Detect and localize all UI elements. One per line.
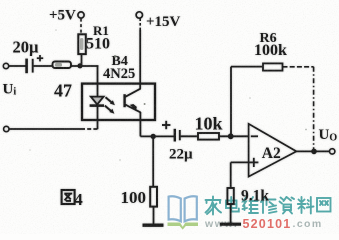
wire plus input horizontal [231, 161, 249, 163]
resistor R1 [78, 34, 86, 54]
node junction output [311, 149, 317, 155]
scan speckles [29, 29, 307, 201]
wire node down to resistor 100 [152, 136, 154, 186]
node junction 100/22u [151, 134, 156, 139]
char xiu [261, 198, 277, 214]
resistor 10k [198, 133, 219, 140]
resistor 100 [150, 187, 157, 207]
watermark url www.520101.com [204, 217, 323, 231]
terminal +5V [78, 12, 84, 18]
wire emitter to node [140, 135, 174, 137]
wire +15V down to collector [139, 18, 141, 30]
terminal Ui top [3, 63, 8, 68]
opamp minus sign [251, 135, 258, 137]
phototransistor of optocoupler [125, 89, 141, 113]
resistor 9.1k [227, 188, 233, 204]
capacitor 22u [162, 121, 180, 142]
wire 9.1k to ground [230, 204, 232, 224]
watermark book base green [168, 223, 199, 230]
wire opamp output [296, 150, 329, 152]
wire 22u to 10k [181, 135, 198, 137]
ground left [143, 223, 164, 226]
char zi [280, 197, 295, 214]
terminal Ui bottom [4, 126, 9, 131]
capacitor C 20u (electrolytic) [27, 55, 44, 73]
wire feedback left vertical [230, 67, 232, 137]
watermark logo book icon [169, 196, 197, 221]
char jia [206, 197, 222, 215]
wire corner down to LED anode [97, 65, 99, 97]
resistor R6 [263, 63, 283, 70]
terminal +15V [136, 12, 142, 18]
watermark text jiadian weixiu ziliao wang [206, 197, 331, 215]
wire +5V dashed lead [80, 19, 82, 34]
node junction R1/input [77, 63, 82, 68]
resistor 47 [53, 62, 72, 69]
op-amp A2 [249, 124, 297, 177]
node junction feedback [228, 133, 234, 139]
wire R1 bottom to junction [81, 54, 83, 66]
light arrows [105, 97, 115, 114]
char liao [298, 197, 314, 214]
wire feedback top right [283, 66, 314, 68]
wire input top to capacitor [9, 65, 26, 67]
wire plus input down to 9.1k [230, 162, 232, 188]
scan smudge in R1 resistor [80, 38, 83, 50]
opamp plus sign [249, 158, 258, 167]
label figure 图4 [62, 190, 75, 204]
char wang [317, 198, 331, 212]
char dian [226, 197, 239, 212]
wire LED cathode down [97, 106, 99, 130]
wire resistor 47 to corner [71, 65, 98, 67]
wire resistor 100 to ground [153, 207, 155, 225]
scan smudge in 47 resistor [55, 63, 62, 67]
wire 10k to opamp minus [219, 135, 249, 137]
wire input bottom [9, 128, 81, 130]
paper noise [0, 0, 1, 1]
wire emitter down [139, 112, 141, 136]
char wei [243, 197, 259, 213]
LED diode of optocoupler [90, 97, 104, 106]
wire capacitor to resistor 47 [34, 65, 53, 67]
wire feedback right vertical dash-dot [313, 67, 315, 152]
wire feedback top left [231, 66, 263, 68]
optocoupler box B4 [82, 84, 155, 120]
terminal Uo [330, 149, 335, 154]
ground right [220, 223, 241, 226]
